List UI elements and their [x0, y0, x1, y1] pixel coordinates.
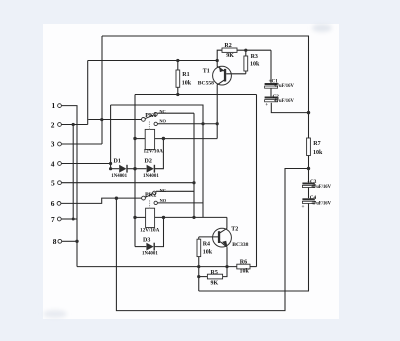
wire: terminal 8 lead	[62, 240, 77, 242]
wire: R1 bottom lead to lower distribution rail	[177, 87, 179, 94]
svg-text:10k: 10k	[203, 249, 213, 255]
junction dot R1 top	[176, 59, 179, 62]
transistor T1 emitter arrow (PNP)	[219, 66, 224, 72]
wire: R6 right lead	[250, 266, 257, 268]
svg-text:6: 6	[51, 199, 55, 208]
relay PK1 armature	[145, 115, 154, 119]
resistor R6 body	[237, 264, 250, 269]
wire: riser x=87.7 from upper rail down to terminal 2 wire	[87, 61, 89, 125]
wire: terminal 3 lead	[61, 143, 102, 145]
wire: vertical x=110.6 from y=105 down to D1 anode wire	[110, 105, 112, 169]
wire: R3 bottom lead down to T1 base wire	[245, 71, 247, 74]
wire: PK2 coil left lead	[135, 216, 146, 218]
wire: top supply rail and right rail down to bottom	[102, 36, 309, 138]
transistor T1 circle	[213, 66, 232, 85]
junction dot terminal 6 / PK2 pole column	[115, 197, 118, 200]
svg-text:1N4001: 1N4001	[143, 174, 159, 179]
svg-text:D2: D2	[145, 158, 152, 164]
svg-text:4: 4	[51, 159, 55, 168]
svg-text:R6: R6	[240, 259, 247, 265]
junction dot terminal 8 corner	[75, 240, 78, 243]
junction dot PK2 coil left	[133, 216, 136, 219]
white scanned-paper area	[43, 24, 339, 319]
wire: D2 cathode lead, riser up to PK1 coil right node	[154, 139, 163, 169]
svg-text:10k: 10k	[182, 81, 192, 87]
diode D1	[119, 165, 126, 173]
junction dot PK1 pole on x=102	[100, 118, 103, 121]
wire: terminal 8 column down then bottom emitter wire to R6	[77, 266, 237, 268]
wire: D3 anode wire from coil column	[135, 246, 146, 248]
junction dot T1 collector / NO wire	[216, 122, 219, 125]
resistor R2 body	[222, 48, 237, 52]
svg-text:+: +	[265, 102, 268, 108]
wire: upper rail y=60.5 from left riser to T1 emitter node	[88, 60, 218, 62]
svg-text:1N4001: 1N4001	[111, 174, 127, 179]
wire: terminal 4 lead	[61, 163, 110, 165]
wire: T2 collector lead into transistor	[220, 217, 227, 233]
junction dot R7 bottom / C3 top	[307, 167, 310, 170]
transistor T1 base bar	[224, 69, 226, 82]
wire: NC vertical x=194 from PK1 NC down to T2 collector wire	[193, 113, 195, 217]
transistor T2 circle	[213, 228, 232, 247]
relay PK1 coil box	[145, 129, 154, 149]
wire: D1 cathode to coil column	[127, 168, 135, 170]
svg-text:PK2: PK2	[145, 193, 156, 199]
svg-text:R3: R3	[251, 54, 258, 60]
resistor R5 body	[207, 274, 222, 279]
junction dot T2 emitter / R6 left	[225, 265, 228, 268]
wire: PK1 coil left lead	[135, 138, 145, 140]
capacitor C3 plates	[302, 183, 314, 185]
relay PK2 pole contact circle	[142, 196, 146, 200]
junction dot D1 anode column	[109, 167, 112, 170]
junction dot terminal 5 / NC vertical	[192, 181, 195, 184]
wire: C2 bottom lead, corner right to right rail	[271, 103, 308, 113]
resistor R4 body	[197, 239, 201, 256]
junction dot D1 cathode / coil column	[133, 167, 136, 170]
wire: R5 right lead riser up to emitter node	[223, 267, 227, 277]
svg-text:9K: 9K	[211, 281, 219, 287]
wire: left vertical from top rail down (to terminal 3 level)	[101, 36, 103, 144]
svg-text:R4: R4	[203, 242, 210, 248]
wire: D2 anode lead	[135, 168, 146, 170]
wire: right rail segment C4 bottom to lower corner, then left to R4 bottom column	[199, 204, 309, 291]
wire: right rail segment C3 bottom to C4 top	[308, 187, 310, 198]
relay PK1 actuator link	[148, 121, 150, 129]
wire: coil column x=135 from rail down to D3 wire	[134, 95, 136, 247]
svg-text:47uF/16V: 47uF/16V	[274, 99, 294, 104]
svg-text:NC: NC	[159, 109, 165, 114]
svg-text:T2: T2	[231, 226, 238, 232]
svg-text:10k: 10k	[240, 269, 250, 275]
svg-text:47uF/16V: 47uF/16V	[312, 202, 332, 207]
svg-text:3: 3	[51, 140, 55, 149]
resistor R1 body	[176, 70, 180, 87]
wire: T1 base wire	[226, 73, 246, 75]
svg-text:9K: 9K	[226, 53, 234, 59]
relay PK1 NC contact circle	[154, 113, 157, 116]
wire: R3 top riser	[245, 50, 247, 56]
svg-text:PK1: PK1	[145, 113, 156, 119]
svg-text:D1: D1	[114, 158, 121, 164]
wire: PK1 coil wire from T1 collector column to coil box	[155, 138, 218, 140]
wire: capacitor column C1 top lead	[270, 50, 272, 83]
transistor T2 base bar	[218, 231, 220, 243]
diode D2	[147, 165, 154, 173]
resistor R7 body	[307, 138, 311, 156]
junction dot PK1 coil right	[162, 137, 165, 140]
relay PK2 actuator link	[149, 200, 151, 208]
terminal 2 circle	[58, 123, 62, 127]
junction dot terminal 4 / D1 column	[109, 162, 112, 165]
terminal 5 circle	[58, 181, 62, 185]
relay PK2 NO contact circle	[154, 201, 157, 204]
svg-text:1N4001: 1N4001	[142, 251, 158, 256]
svg-text:47uF/16V: 47uF/16V	[274, 84, 294, 89]
svg-text:R2: R2	[224, 43, 231, 49]
wire: PK1 NO contact wire to T1 collector column	[158, 123, 218, 125]
relay PK2 NC contact circle	[153, 191, 156, 194]
svg-text:BC338: BC338	[232, 242, 248, 248]
junction dot terminal2 wire x=73	[72, 123, 75, 126]
svg-text:8: 8	[53, 237, 57, 246]
terminal 6 circle	[57, 202, 61, 206]
svg-text:+C3: +C3	[307, 179, 317, 185]
wire: R4 top lead	[198, 237, 200, 239]
terminal 8 circle	[58, 239, 62, 243]
junction dot NC vertical / T2 collector wire	[192, 216, 195, 219]
capacitor C4 plates	[302, 198, 314, 200]
wire: R2 left riser from T1 emitter node	[217, 50, 222, 60]
junction dot R4 bottom / R5 left	[197, 275, 200, 278]
wire: R6 column x=256.5 from rail y=94.5 down to R6 right lead	[256, 95, 258, 267]
junction dot T1 emitter / R2 node	[216, 59, 219, 62]
scan smudge top right	[312, 24, 332, 32]
wire: distribution rail y=94.5 from coil column to R6 column	[135, 94, 257, 96]
wire: D3 cathode lead, riser up to PK2 coil right node	[154, 217, 164, 246]
wire: terminal 5 lead to NC vertical	[61, 182, 194, 184]
wire: PK1 pole wire from left verticals to pole	[88, 119, 141, 121]
relay PK2 coil box	[146, 208, 155, 227]
svg-text:2: 2	[51, 120, 55, 129]
svg-text:NO: NO	[160, 198, 167, 203]
relay PK1 NO contact circle	[154, 122, 157, 125]
wire: terminal 7 lead	[61, 218, 77, 220]
transistor T2 emitter arrow (NPN)	[222, 241, 227, 248]
svg-text:D3: D3	[143, 237, 150, 243]
wire: T2 base wire to R4 top	[199, 236, 218, 238]
svg-text:7: 7	[51, 215, 55, 224]
svg-text:R7: R7	[313, 141, 320, 147]
capacitor C1 plates	[265, 83, 278, 85]
capacitor C2 plates	[265, 97, 278, 99]
wire: PK1 NC contact wire	[157, 112, 194, 114]
wire: T2 emitter diagonal	[220, 242, 226, 247]
svg-text:10k: 10k	[250, 61, 260, 67]
svg-text:T1: T1	[203, 69, 210, 75]
svg-text:5: 5	[51, 179, 55, 188]
junction dot R1 bottom	[176, 93, 179, 96]
wire: R2 right lead over to capacitor column	[237, 49, 271, 51]
junction dot PK1 NO / NO vertical	[201, 122, 204, 125]
svg-text:R5: R5	[211, 270, 218, 276]
terminal 7 circle	[57, 217, 61, 221]
svg-text:1: 1	[52, 101, 56, 110]
resistor R3 body	[244, 56, 248, 71]
wire: T1 collector diagonal and long vertical to PK1 coil wire	[217, 80, 224, 139]
wire: vertical x=73.2 from terminal2 wire down to terminal 7 wire	[72, 125, 74, 220]
junction dot C2 return on right rail	[307, 111, 310, 114]
svg-text:10k: 10k	[313, 150, 323, 156]
junction dot terminal 7 / x=73 vertical	[72, 218, 75, 221]
wire: NO vertical x=203 from y=105 wire down to T2 collector wire	[111, 105, 203, 217]
wire: PK2 NO contact wire	[157, 202, 203, 204]
wire: D1 anode lead	[111, 168, 120, 170]
wire: T2 emitter vertical to bottom wire	[226, 247, 228, 266]
wire: terminal 2 lead	[61, 124, 87, 126]
svg-text:BC558: BC558	[198, 80, 214, 86]
terminal 4 circle	[58, 162, 62, 166]
wire: terminal 6 lead with jog up to PK2 pole wire	[61, 198, 142, 203]
wire: T2 collector wire from PK2 coil right node to transistor	[155, 216, 227, 218]
svg-text:47uF/16V: 47uF/16V	[312, 185, 332, 190]
svg-text:C4: C4	[310, 195, 317, 201]
svg-text:12V/10A: 12V/10A	[144, 149, 164, 155]
wire: R1 top lead	[177, 61, 179, 71]
wire: T1 emitter lead from node into transistor	[217, 61, 224, 72]
svg-text:NC: NC	[160, 188, 166, 193]
relay PK2 armature	[145, 194, 152, 198]
scan smudge bottom left	[43, 310, 67, 318]
junction dot PK2 coil right	[162, 216, 165, 219]
wire: right rail segment R7 bottom to C3 top	[308, 156, 310, 183]
wire: link C1 bottom to C2 top	[270, 88, 272, 96]
relay PK1 pole contact circle	[142, 118, 146, 122]
wire: R4 bottom column down to bottom rail y=291	[198, 257, 200, 291]
svg-text:R1: R1	[182, 72, 189, 78]
svg-text:+: +	[302, 204, 305, 210]
junction dot R2/R3 node	[244, 49, 247, 52]
terminal 1 circle	[58, 104, 62, 108]
wire: PK2 pole column x=116.4 down, bottom wire, right riser up to R7/C3 node wire	[116, 169, 308, 311]
wire: PK2 NC contact wire	[156, 190, 194, 192]
wire: terminal 1 lead and vertical down to terminal 7 wire	[61, 106, 77, 267]
junction dot PK1 coil left	[133, 137, 136, 140]
svg-text:12V/10A: 12V/10A	[140, 228, 160, 234]
wire: R5 left lead	[199, 276, 208, 278]
terminal 3 circle	[58, 142, 62, 146]
junction dot R4 / emitter bottom wire	[197, 265, 200, 268]
diode D3	[146, 243, 153, 251]
svg-text:NO: NO	[159, 118, 166, 123]
